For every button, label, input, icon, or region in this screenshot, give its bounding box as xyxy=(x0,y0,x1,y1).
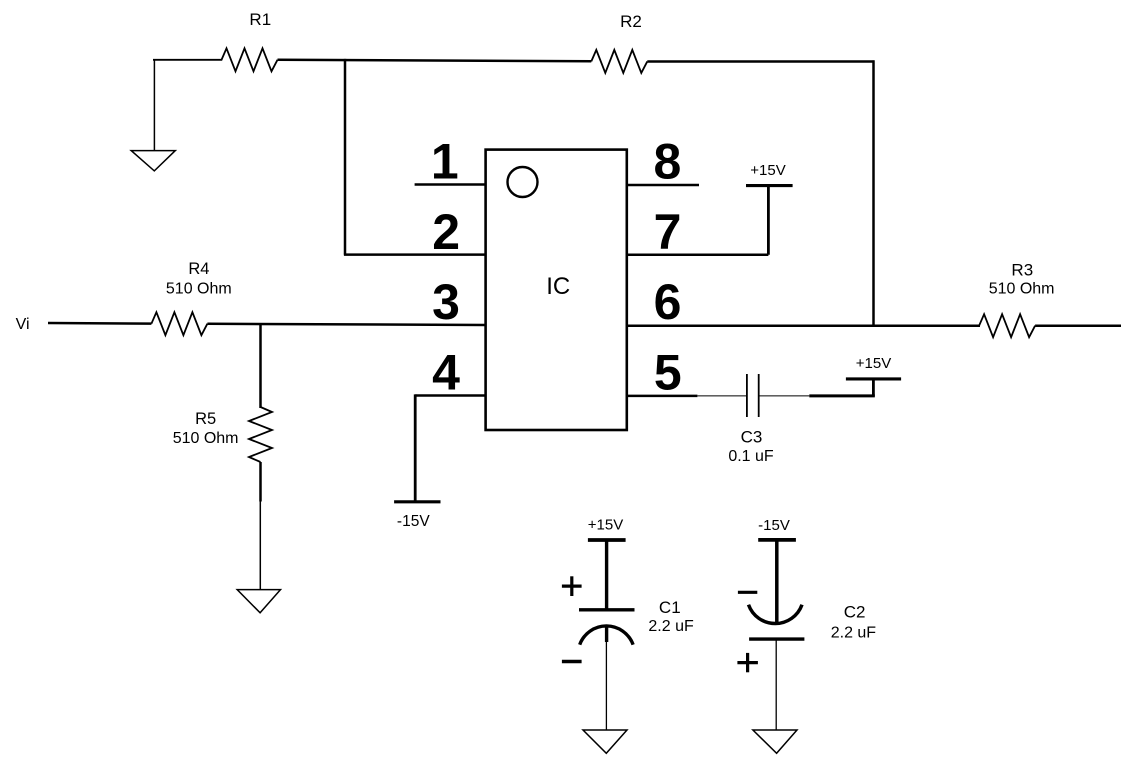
ground (below R1) xyxy=(131,60,175,171)
wire (C3 to +15V) xyxy=(809,394,875,397)
resistor R1 xyxy=(153,10,278,71)
svg-text:6: 6 xyxy=(654,274,682,330)
svg-text:Vi: Vi xyxy=(16,316,30,333)
svg-text:1: 1 xyxy=(431,134,459,190)
capacitor C1 xyxy=(562,540,694,662)
svg-text:R3: R3 xyxy=(1011,261,1033,280)
svg-text:C1: C1 xyxy=(659,598,681,617)
svg-text:510 Ohm: 510 Ohm xyxy=(989,281,1055,298)
svg-text:510 Ohm: 510 Ohm xyxy=(173,430,239,447)
svg-text:510 Ohm: 510 Ohm xyxy=(166,280,232,297)
wire (R4 to pin 3) xyxy=(207,324,485,325)
pin 4 xyxy=(415,345,485,401)
wire (pin 6 output rail) xyxy=(627,324,980,327)
svg-text:2.2 uF: 2.2 uF xyxy=(831,625,877,642)
svg-text:-15V: -15V xyxy=(758,517,790,534)
svg-text:+15V: +15V xyxy=(588,516,623,533)
pin 1 orientation mark (circle) xyxy=(508,167,538,197)
op-amp IC U1 body xyxy=(486,150,627,430)
svg-text:C2: C2 xyxy=(844,603,866,622)
svg-text:0.1 uF: 0.1 uF xyxy=(728,448,774,465)
pin 8 xyxy=(627,134,699,190)
svg-text:4: 4 xyxy=(432,345,460,401)
capacitor C3 xyxy=(697,374,809,465)
capacitor C2 xyxy=(737,540,876,672)
svg-text:R5: R5 xyxy=(195,410,216,428)
svg-text:IC: IC xyxy=(546,273,570,300)
wire (pin 2 horizontal into IC) xyxy=(344,253,486,256)
ground (below R5) xyxy=(237,502,280,613)
svg-text:5: 5 xyxy=(654,345,682,401)
power +15V (C3 side) xyxy=(846,355,901,397)
resistor R3 xyxy=(979,261,1054,338)
wire (top rail junction down to pin 2) xyxy=(344,59,347,255)
svg-text:C3: C3 xyxy=(741,428,763,447)
ground (below C1) xyxy=(583,642,627,753)
power +15V (pin 7 supply) xyxy=(746,162,793,255)
pin 7 xyxy=(627,204,769,260)
svg-text:+15V: +15V xyxy=(856,355,891,372)
pin 1 xyxy=(415,134,486,190)
wire (R5 bottom lead) xyxy=(259,462,262,502)
svg-text:+15V: +15V xyxy=(750,162,785,179)
pin 5 xyxy=(627,345,698,401)
resistor R5 xyxy=(173,407,272,462)
svg-text:-15V: -15V xyxy=(397,513,430,530)
svg-text:7: 7 xyxy=(654,204,682,260)
svg-text:R2: R2 xyxy=(620,12,642,31)
power -15V (C2 top) xyxy=(758,517,796,540)
power -15V (pin 4 supply) xyxy=(394,394,440,530)
wire (R3 to output edge) xyxy=(1035,324,1121,327)
resistor R2 xyxy=(591,12,647,73)
ground (below C2) xyxy=(753,639,797,753)
resistor R4 xyxy=(151,260,231,335)
wire (R1 to R2 top rail) xyxy=(278,60,592,62)
power +15V (C1 top) xyxy=(588,516,626,540)
wire (Vi input lead) xyxy=(48,322,151,325)
svg-text:R1: R1 xyxy=(249,10,271,29)
svg-text:3: 3 xyxy=(432,274,460,330)
wire (R2 to feedback corner) xyxy=(647,60,874,63)
svg-text:R4: R4 xyxy=(188,260,209,278)
svg-text:8: 8 xyxy=(653,134,681,190)
svg-text:2.2 uF: 2.2 uF xyxy=(648,618,694,635)
node junction (R4/R5) wire down xyxy=(259,324,262,408)
wire (feedback vertical down to pin 6 rail) xyxy=(872,60,875,325)
svg-text:2: 2 xyxy=(432,204,460,260)
